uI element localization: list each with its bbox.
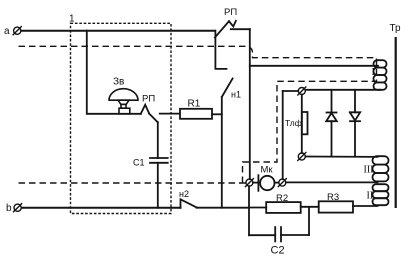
svg-text:1: 1 — [69, 14, 75, 25]
svg-text:b: b — [6, 203, 12, 214]
svg-text:II: II — [367, 191, 374, 202]
svg-text:Тр: Тр — [390, 23, 402, 34]
svg-text:a: a — [4, 26, 10, 37]
svg-text:Тлф: Тлф — [285, 118, 302, 128]
svg-text:С2: С2 — [271, 245, 285, 256]
svg-text:R2: R2 — [276, 193, 288, 204]
svg-text:С1: С1 — [133, 158, 145, 168]
svg-text:R3: R3 — [327, 192, 339, 203]
svg-text:Зв: Зв — [113, 77, 124, 88]
svg-text:н1: н1 — [231, 90, 241, 100]
svg-text:РП: РП — [224, 7, 237, 18]
svg-text:R1: R1 — [188, 99, 201, 110]
svg-text:н2: н2 — [179, 189, 189, 199]
svg-text:I: I — [372, 67, 375, 78]
svg-text:РП: РП — [142, 94, 155, 105]
svg-text:III: III — [364, 165, 374, 176]
svg-text:Мк: Мк — [261, 165, 274, 176]
